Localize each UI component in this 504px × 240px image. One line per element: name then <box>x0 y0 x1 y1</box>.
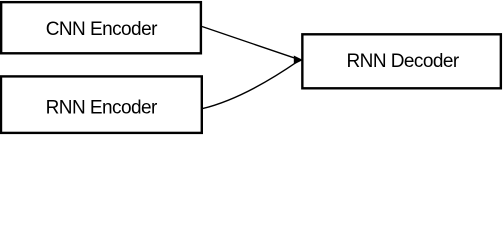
svg-text:RNN Decoder: RNN Decoder <box>346 51 459 72</box>
svg-text:CNN Encoder: CNN Encoder <box>46 19 158 40</box>
svg-text:RNN Encoder: RNN Encoder <box>46 97 158 118</box>
